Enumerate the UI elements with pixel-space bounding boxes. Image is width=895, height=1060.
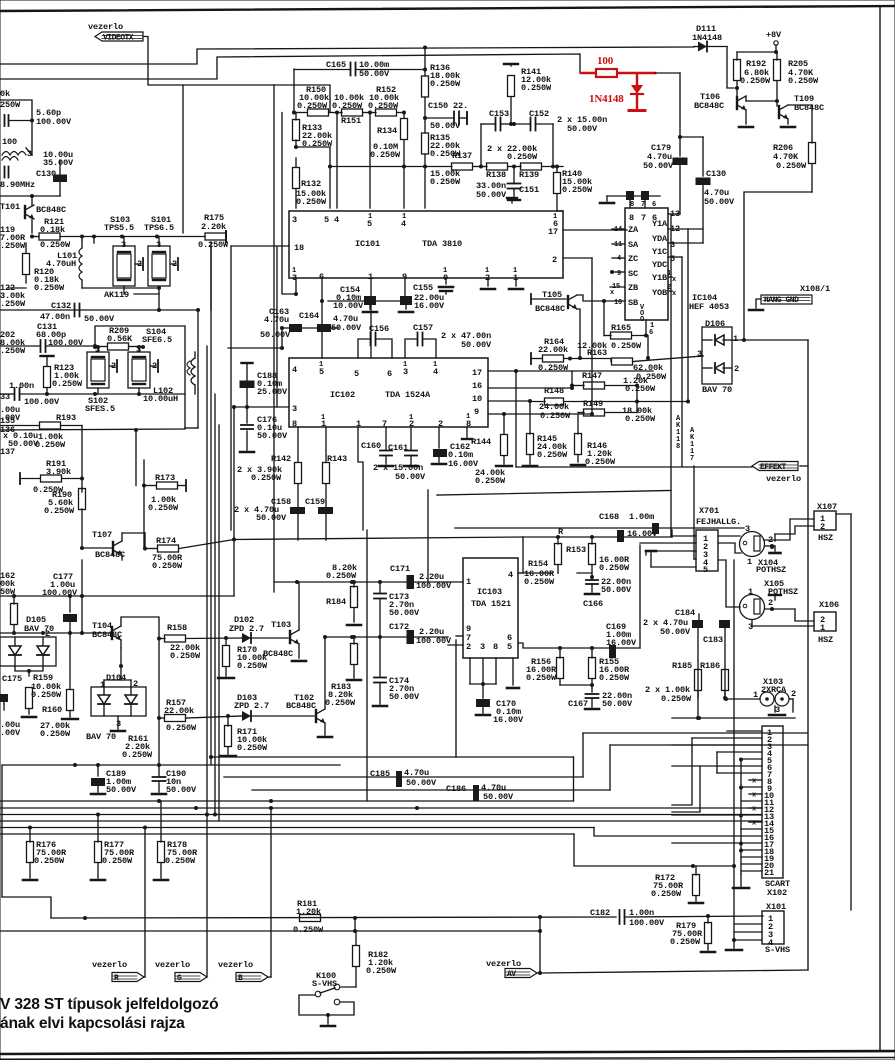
svg-text:0.250W: 0.250W [31, 690, 62, 700]
svg-text:1N4148: 1N4148 [589, 93, 624, 105]
resistor R145 [527, 434, 534, 455]
wire T105 collector down [577, 309, 580, 358]
svg-text:R149: R149 [583, 399, 603, 409]
wire T109 collector [788, 105, 812, 143]
svg-text:.250W: .250W [0, 241, 26, 251]
wire vertical x144 [143, 460, 145, 548]
svg-text:0.250W: 0.250W [636, 372, 667, 382]
node VIDEOTX tag [95, 32, 143, 41]
svg-text:9: 9 [474, 407, 479, 417]
svg-text:14: 14 [614, 226, 622, 234]
wire staircase y733 [583, 732, 808, 734]
svg-text:21: 21 [764, 868, 774, 878]
wire bus y814 [0, 814, 762, 816]
svg-text:100.00V: 100.00V [42, 588, 78, 598]
svg-text:R153: R153 [566, 545, 586, 555]
svg-text:0.250W: 0.250W [540, 411, 571, 421]
wire x717 vertical [716, 752, 718, 773]
wire T107 collector [122, 532, 145, 534]
wire D104 bottom [117, 716, 119, 729]
svg-text:0.250W: 0.250W [34, 856, 65, 866]
svg-text:0.250W: 0.250W [524, 577, 555, 587]
wire D105 bottom join [15, 666, 43, 671]
svg-text:vezerlo: vezerlo [88, 22, 123, 32]
wire IC103 pin1 left [448, 581, 463, 583]
svg-text:50.00V: 50.00V [483, 792, 514, 802]
svg-text:C165: C165 [326, 60, 346, 70]
wire x294 C165 to R150 [292, 111, 296, 115]
svg-text:BC848C: BC848C [694, 101, 724, 111]
svg-text:2: 2 [133, 679, 138, 689]
svg-text:137: 137 [0, 447, 15, 457]
wire red area continuation [655, 72, 680, 74]
svg-text:0.250W: 0.250W [526, 673, 557, 683]
wire bus y931 [0, 930, 540, 932]
svg-text:3: 3 [292, 404, 297, 414]
svg-text:100.00V: 100.00V [629, 918, 665, 928]
svg-text:0.250W: 0.250W [122, 750, 153, 760]
svg-text:BC848C: BC848C [263, 649, 293, 659]
svg-text:1: 1 [748, 587, 753, 597]
wire y582 from left [274, 581, 297, 583]
svg-text:7: 7 [690, 455, 694, 463]
diode D104 left [98, 695, 110, 704]
wire x688 vertical [687, 229, 689, 402]
svg-text:11: 11 [614, 241, 622, 249]
diode D104 right [125, 695, 137, 704]
svg-text:R134: R134 [377, 126, 397, 136]
svg-text:.250W: .250W [0, 346, 26, 356]
resistor R138 [487, 163, 508, 170]
svg-text:50.00V: 50.00V [256, 513, 287, 523]
svg-text:50.00V: 50.00V [106, 785, 137, 795]
wire bus y827 [0, 827, 594, 829]
svg-text:5: 5 [354, 369, 359, 379]
svg-text:0.250W: 0.250W [537, 450, 568, 460]
wire X105 pins to X106 [765, 608, 795, 610]
svg-text:3: 3 [116, 719, 121, 729]
wire x82 down [81, 560, 83, 633]
wire R206 down to D106 [744, 192, 812, 340]
wire R193 corner down [81, 426, 83, 493]
svg-text:R144: R144 [471, 437, 491, 447]
wire bus y808 [0, 807, 762, 809]
capacitor IC104 pin6 top [641, 191, 649, 200]
wire x741 vertical [740, 759, 742, 874]
wire IC102 pin17 right [488, 370, 516, 372]
svg-text:BAV 70: BAV 70 [702, 385, 732, 395]
wire staircase y745 [610, 744, 808, 746]
wire right vertical x640 [639, 545, 641, 648]
wire x2 corner [1, 765, 3, 897]
resistor R133 [293, 120, 300, 141]
svg-text:C151: C151 [519, 185, 539, 195]
wire IC102 pin16 right [488, 387, 572, 389]
svg-text:4: 4 [401, 219, 406, 229]
svg-text:6: 6 [649, 329, 653, 337]
wire R121 to filters [60, 236, 205, 238]
svg-text:vezerlo: vezerlo [155, 960, 190, 970]
svg-text:O: O [640, 316, 644, 324]
wire bus y582 [297, 581, 380, 583]
svg-text:50.00V: 50.00V [260, 330, 291, 340]
wire IC101 pin2 right [563, 257, 592, 259]
wire x282 vertical [282, 113, 296, 295]
svg-text:FEJHALLG.: FEJHALLG. [696, 517, 741, 527]
svg-text:VIDEOTX: VIDEOTX [103, 34, 134, 43]
svg-text:ának elvi kapcsolási rajza: ának elvi kapcsolási rajza [0, 1015, 185, 1032]
svg-text:50.00V: 50.00V [602, 699, 633, 709]
svg-text:0.250W: 0.250W [776, 161, 807, 171]
wire X104 to X107 [718, 535, 740, 537]
ground near C155 [440, 290, 452, 292]
resistor R120 [23, 254, 30, 275]
wire IC102 pin9 right [488, 413, 592, 415]
resistor R123 [41, 355, 54, 357]
svg-text:4: 4 [617, 255, 621, 263]
border frame bottom [0, 1051, 895, 1054]
svg-text:C186: C186 [446, 784, 466, 794]
mux IC104 HEF4053 box [625, 208, 668, 320]
wire inner border right [807, 340, 809, 970]
svg-text:BC848C: BC848C [286, 701, 316, 711]
wire long y493 [437, 491, 671, 496]
svg-text:50.00V: 50.00V [601, 585, 632, 595]
capacitor under C177 [69, 596, 71, 612]
svg-text:25.00V: 25.00V [257, 387, 288, 397]
svg-text:50.00V: 50.00V [84, 314, 115, 324]
svg-text:T107: T107 [92, 530, 112, 540]
wire x159 R158 to R157 [158, 639, 160, 766]
svg-text:0.250W: 0.250W [599, 563, 630, 573]
svg-text:IC102: IC102 [330, 390, 355, 400]
svg-text:3: 3 [745, 524, 750, 534]
wire T104 collector [121, 617, 159, 638]
svg-text:YDA: YDA [652, 234, 668, 244]
box filter group S102 S104 [95, 326, 185, 428]
svg-text:50.00V: 50.00V [461, 340, 492, 350]
svg-text:2: 2 [552, 255, 557, 265]
svg-text:C183: C183 [703, 635, 723, 645]
svg-text:35.00V: 35.00V [43, 158, 74, 168]
wire x672b steps [672, 766, 700, 812]
svg-text:C156: C156 [369, 324, 389, 334]
svg-text:0.250W: 0.250W [325, 698, 356, 708]
svg-text:C172: C172 [389, 622, 409, 632]
svg-text:X108/1: X108/1 [800, 284, 830, 294]
wire R135 column to IC101 [424, 167, 426, 208]
svg-text:10: 10 [472, 394, 482, 404]
filter S104 can [128, 352, 150, 388]
svg-text:TDA 1521: TDA 1521 [471, 599, 511, 609]
svg-text:vezerlo: vezerlo [218, 960, 253, 970]
svg-text:0.250W: 0.250W [293, 925, 324, 935]
svg-text:X102: X102 [767, 888, 787, 898]
svg-text:.250W: .250W [0, 299, 26, 309]
wire C153 bracket left [480, 124, 482, 167]
svg-text:5: 5 [367, 219, 372, 229]
svg-text:50.00V: 50.00V [476, 190, 507, 200]
svg-text:5: 5 [703, 565, 708, 575]
svg-text:100: 100 [597, 55, 614, 67]
svg-text:0.250W: 0.250W [198, 240, 229, 250]
svg-text:TPS5.5: TPS5.5 [104, 223, 134, 233]
wire IC101 pin11 gnd [515, 278, 517, 286]
svg-text:POTHSZ: POTHSZ [756, 565, 786, 575]
svg-text:B: B [238, 974, 243, 983]
wire D105 top [0, 632, 112, 634]
svg-text:2.20k: 2.20k [201, 222, 226, 232]
resistor R146 [575, 434, 582, 455]
svg-text:0.250W: 0.250W [507, 152, 538, 162]
wire IC103 pin6 right [518, 643, 640, 648]
wire vertical bundle x219 [218, 425, 220, 821]
wire X107 pin2 [775, 526, 814, 534]
resistor R132 [293, 168, 300, 189]
svg-text:4.70u: 4.70u [264, 315, 289, 325]
svg-text:C161: C161 [388, 443, 408, 453]
svg-text:1: 1 [820, 623, 825, 633]
connector SCART X102 box [762, 726, 783, 878]
svg-text:0.250W: 0.250W [40, 240, 71, 250]
svg-text:Y1B: Y1B [652, 273, 667, 283]
svg-text:x: x [672, 276, 677, 284]
svg-text:3: 3 [480, 642, 485, 652]
svg-text:TPS6.5: TPS6.5 [144, 223, 174, 233]
svg-text:0.250W: 0.250W [166, 723, 197, 733]
capacitor 8.90MHz crystal [4, 167, 6, 178]
wire x540 vertical [539, 917, 541, 973]
svg-text:5 4: 5 4 [324, 215, 339, 225]
wire x516 box edge [515, 371, 517, 467]
wire bus y596 [0, 595, 234, 597]
svg-text:R132: R132 [301, 179, 321, 189]
red highlight wire [581, 72, 655, 75]
diode D105 left [9, 646, 21, 655]
wire T102 collector [324, 637, 326, 708]
svg-text:IC103: IC103 [477, 587, 502, 597]
svg-text:0.250W: 0.250W [611, 341, 642, 351]
svg-text:0.250W: 0.250W [740, 76, 771, 86]
wire x234 long vertical [233, 407, 235, 596]
svg-text:R184: R184 [326, 597, 346, 607]
svg-text:.00V: .00V [0, 728, 21, 738]
svg-text:0.250W: 0.250W [237, 743, 268, 753]
wire IC101 pin18 [231, 245, 289, 247]
svg-text:2: 2 [791, 689, 796, 699]
svg-text:x: x [672, 290, 677, 298]
svg-text:x: x [752, 778, 757, 786]
svg-text:0.250W: 0.250W [366, 966, 397, 976]
wire D111 to T106 base [727, 47, 734, 89]
resistor R183 [351, 644, 358, 665]
capacitor IC104 pin7 top [626, 191, 634, 200]
svg-text:5: 5 [507, 642, 512, 652]
wire x692 steps [672, 738, 692, 805]
headphone jack X104 [740, 532, 765, 557]
wire R140 to IC [557, 210, 563, 212]
wire IC102 pin5b [466, 427, 468, 437]
svg-text:D104: D104 [106, 673, 126, 683]
svg-text:0.250W: 0.250W [296, 197, 327, 207]
wire stub left y100 [0, 100, 32, 120]
wire vertical bundle x215 [214, 394, 216, 815]
svg-text:R185: R185 [672, 661, 692, 671]
capacitor 5.60p [4, 115, 6, 126]
wire IC101 pin1 down [370, 278, 372, 358]
svg-text:10.00uH: 10.00uH [143, 394, 178, 404]
svg-text:C155: C155 [413, 283, 433, 293]
wire x231 vertical [230, 246, 232, 530]
svg-text:C164: C164 [299, 311, 319, 321]
svg-text:R137: R137 [452, 151, 472, 161]
wire x428 long vertical [427, 490, 429, 582]
svg-text:6: 6 [652, 201, 656, 209]
svg-text:TDA 1524A: TDA 1524A [385, 390, 431, 400]
amplifier IC103 TDA1521 box [463, 558, 518, 658]
resistor R135 [422, 133, 429, 154]
svg-text:0.250W: 0.250W [52, 379, 83, 389]
wire bus down to caps [671, 530, 673, 537]
svg-text:0.250W: 0.250W [670, 937, 701, 947]
wires into SCART [727, 730, 762, 732]
svg-text:0.250W: 0.250W [788, 76, 819, 86]
svg-text:8: 8 [676, 443, 680, 451]
wire into C163 from left [228, 347, 282, 349]
wire x592 pin9 down [591, 282, 593, 414]
svg-text:SA: SA [628, 240, 639, 250]
svg-text:10.00V: 10.00V [333, 301, 364, 311]
svg-text:3: 3 [403, 367, 408, 377]
wire T106 collector to T109 base [746, 100, 777, 102]
svg-text:50.00V: 50.00V [359, 69, 390, 79]
svg-text:0.250W: 0.250W [430, 177, 461, 187]
svg-text:22.00k: 22.00k [538, 345, 568, 355]
wire x734 long vertical [733, 560, 735, 940]
wire IC102 pin3 left [234, 406, 289, 408]
svg-text:1: 1 [747, 557, 752, 567]
wire IC101 pin9 down [404, 278, 406, 296]
wire R147 R148 join [636, 386, 638, 413]
svg-text:50.00V: 50.00V [166, 785, 197, 795]
wire R141 to C153 node [511, 123, 514, 125]
border frame right [879, 6, 881, 1050]
wire y718 [672, 717, 795, 719]
wire bus C132 y310 [0, 309, 198, 311]
svg-text:100.00V: 100.00V [24, 397, 60, 407]
svg-text:R142: R142 [271, 454, 291, 464]
wire T104 emitter to D104 [120, 640, 122, 648]
diode D106 lower [715, 363, 724, 373]
svg-text:50.00V: 50.00V [704, 197, 735, 207]
wire x274 vertical long [273, 85, 275, 592]
svg-text:3: 3 [775, 705, 780, 715]
wire IC101 pin3 down [295, 278, 297, 294]
svg-text:1: 1 [733, 334, 738, 344]
svg-text:0.250W: 0.250W [430, 79, 461, 89]
svg-text:4: 4 [433, 367, 438, 377]
svg-text:18: 18 [294, 243, 304, 253]
svg-text:50.00V: 50.00V [406, 778, 437, 788]
svg-text:Y1C: Y1C [652, 247, 667, 257]
svg-text:x: x [752, 792, 757, 800]
wire C165 left branch [293, 69, 295, 112]
tag EFFEKT [752, 462, 798, 471]
svg-text:HEF 4053: HEF 4053 [689, 302, 729, 312]
svg-text:2: 2 [768, 598, 773, 608]
wires into X701 [670, 530, 672, 536]
svg-text:7: 7 [641, 201, 645, 209]
inductor L102 coil [191, 358, 195, 385]
svg-text:0.250W: 0.250W [370, 150, 401, 160]
SCART ground [740, 874, 742, 886]
ground IC104 top [606, 196, 608, 201]
svg-text:0.250W: 0.250W [599, 673, 630, 683]
svg-text:5: 5 [319, 367, 324, 377]
svg-text:G: G [177, 974, 182, 983]
svg-text:C150 22.: C150 22. [428, 101, 468, 111]
svg-text:SFE6.5: SFE6.5 [142, 335, 172, 345]
svg-text:50.00V: 50.00V [643, 161, 674, 171]
svg-text:vezerlo: vezerlo [92, 960, 127, 970]
op-amp IC102 TDA1524A box [289, 358, 488, 427]
wire y85 to C165 right [274, 85, 330, 112]
svg-text:Y1A: Y1A [652, 219, 668, 229]
op-amp IC101 TDA3810 box [289, 211, 563, 278]
wire T105 emitter to SB [577, 295, 604, 301]
diode D106 upper [715, 335, 724, 345]
wire bus y765 [2, 764, 340, 766]
svg-text:x: x [752, 806, 757, 814]
wire x337 R151 down [336, 113, 338, 209]
svg-text:S-VHS: S-VHS [765, 945, 790, 955]
wire AK119 to bus [158, 294, 160, 310]
wire AV line y972 [540, 970, 808, 973]
wire IC101 pin6 down [321, 278, 323, 358]
ground tick near C151 [507, 197, 517, 199]
svg-text:3: 3 [697, 349, 702, 359]
svg-text:C160: C160 [361, 441, 381, 451]
svg-text:0.250W: 0.250W [44, 506, 75, 516]
svg-text:C171: C171 [390, 564, 410, 574]
wire filter bottoms [97, 388, 99, 394]
wire C184 C183 verticals [697, 628, 699, 698]
wire x370 down [369, 113, 371, 209]
wire pin9 7 left [456, 635, 463, 637]
svg-text:0.250W: 0.250W [102, 856, 133, 866]
svg-text:AV: AV [507, 970, 516, 979]
svg-text:3: 3 [27, 149, 32, 159]
wire D106 pin3 stub [702, 355, 704, 357]
svg-text:SC: SC [628, 269, 638, 279]
wire bus B y79 [0, 54, 596, 79]
wire long y429 [0, 429, 185, 430]
svg-text:4: 4 [508, 570, 513, 580]
svg-text:2: 2 [466, 642, 471, 652]
svg-text:50.00V: 50.00V [567, 124, 598, 134]
wire D104 top [103, 680, 105, 687]
wire bus y801 [0, 800, 574, 802]
svg-text:BC848C: BC848C [36, 205, 66, 215]
svg-text:ZB: ZB [628, 283, 638, 293]
svg-text:T103: T103 [271, 620, 291, 630]
svg-text:1: 1 [321, 419, 326, 429]
wire IC101 pin17 right [563, 229, 627, 231]
svg-text:8: 8 [630, 201, 634, 209]
wire filters bottom AK119 [82, 288, 159, 293]
wire AK117 vertical [681, 257, 683, 466]
wire y85 horizontal [183, 84, 274, 86]
